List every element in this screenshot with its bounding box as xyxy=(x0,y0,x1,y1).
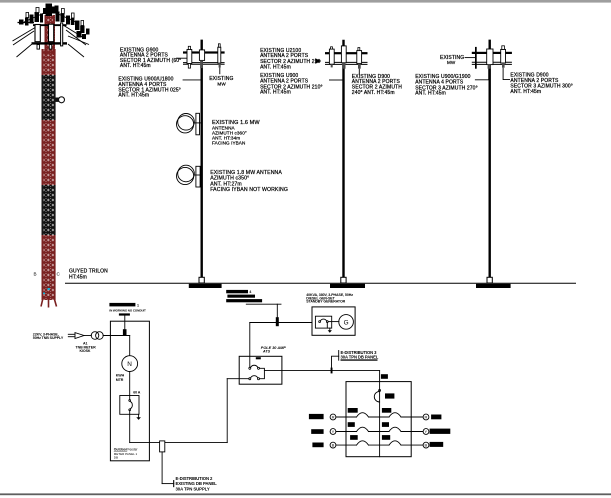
antenna panel left xyxy=(329,49,334,64)
wire horizontal out of panel xyxy=(130,442,228,444)
cluster 3 left bracket bar xyxy=(475,47,477,69)
svg-text:4: 4 xyxy=(249,290,251,294)
svg-text:FACING IYBAN NOT WORKING: FACING IYBAN NOT WORKING xyxy=(210,187,288,193)
tower black band 1 xyxy=(42,75,56,120)
cable arrow symbol xyxy=(75,333,84,339)
leader right antenna to block G xyxy=(503,68,510,80)
wire breaker to G xyxy=(328,321,339,323)
red mast head xyxy=(45,15,56,55)
ground of breaker xyxy=(138,414,140,417)
DB row 1 xyxy=(309,408,442,420)
svg-text:R: R xyxy=(425,415,428,420)
breaker Q1 symbol xyxy=(129,396,131,400)
generator G xyxy=(339,315,354,330)
gen breaker symbol xyxy=(319,321,321,323)
wire riser to ATS xyxy=(226,379,228,443)
block G xyxy=(510,72,573,95)
white panel left xyxy=(35,25,40,42)
svg-text:MW: MW xyxy=(217,82,226,87)
block B xyxy=(118,77,180,99)
generator box xyxy=(312,307,355,335)
block C xyxy=(260,48,320,71)
leader MW label xyxy=(465,57,475,59)
mast 2 pole xyxy=(342,40,344,277)
kWh meter N xyxy=(122,356,138,372)
DB divider xyxy=(379,382,381,457)
platform top bar xyxy=(33,24,67,26)
svg-text:G: G xyxy=(344,319,349,326)
svg-text:30A TPN SUPPLY: 30A TPN SUPPLY xyxy=(176,486,210,491)
tower top antenna cluster xyxy=(13,4,90,58)
dish 2 bracket xyxy=(196,166,200,187)
breaker box Q1 xyxy=(120,396,139,415)
antenna panel right xyxy=(218,47,221,63)
svg-text:KIOSK: KIOSK xyxy=(80,349,91,353)
svg-text:B: B xyxy=(34,272,37,277)
mast top black blobs xyxy=(43,4,59,17)
svg-text:FACING IYBAN: FACING IYBAN xyxy=(212,140,245,145)
wire branch to label xyxy=(162,483,174,485)
block F xyxy=(415,74,478,97)
antenna panel right xyxy=(357,51,362,64)
antenna panel right xyxy=(501,49,506,63)
gen breaker tick xyxy=(276,317,279,326)
wire generator to ATS xyxy=(250,322,312,324)
leader block D to mast2 xyxy=(329,79,344,81)
leader block A xyxy=(176,57,187,59)
svg-text:N: N xyxy=(127,361,132,368)
cluster 3 top bar xyxy=(472,52,512,54)
svg-text:30A TPN DB PANEL: 30A TPN DB PANEL xyxy=(341,355,379,360)
platform feet xyxy=(37,45,40,50)
svg-text:1: 1 xyxy=(137,303,139,307)
ATS switch S2 xyxy=(249,378,251,380)
DB row 2 xyxy=(311,422,450,434)
DB main breaker xyxy=(379,389,381,391)
svg-text:STANDBY GENERATOR: STANDBY GENERATOR xyxy=(306,300,345,304)
block E xyxy=(352,74,402,96)
mast 1 foot xyxy=(199,277,204,283)
wire breaker down xyxy=(129,414,131,442)
wire gen drop into ATS xyxy=(249,323,251,368)
mast 2 base pad xyxy=(330,284,365,288)
wire from busbar down xyxy=(124,316,126,334)
ATS link wire xyxy=(260,368,265,378)
svg-text:DB: DB xyxy=(114,455,118,459)
svg-text:60 A: 60 A xyxy=(133,391,141,395)
busbar T xyxy=(119,313,130,315)
mast 2 foot xyxy=(341,277,346,283)
block D xyxy=(260,73,323,96)
dish 2 xyxy=(178,165,195,182)
ATS box xyxy=(239,356,282,384)
svg-text:ANT. HT:45m: ANT. HT:45m xyxy=(118,93,149,99)
svg-text:ANT. HT:45m: ANT. HT:45m xyxy=(260,90,291,96)
label E-DISTRIBUTION 2 xyxy=(176,476,218,491)
svg-text:ANT. HT:45m: ANT. HT:45m xyxy=(260,65,291,71)
LV panel box xyxy=(110,321,149,461)
svg-text:R: R xyxy=(332,415,335,420)
DB panel box xyxy=(346,382,411,457)
guy wire diagonals xyxy=(13,13,87,57)
fuse link F1 xyxy=(123,329,127,336)
node tick xyxy=(173,481,175,487)
tower red band 1 xyxy=(42,49,56,75)
tower red band 3 xyxy=(42,235,56,300)
ATS switch S1 xyxy=(249,367,251,369)
leader to MW label xyxy=(219,68,221,75)
bottom gray border xyxy=(0,493,611,495)
label E-DISTRIBUTION 4 bars xyxy=(226,290,248,293)
leader from right antenna to text E xyxy=(358,69,360,75)
leader block B xyxy=(183,79,201,81)
dish 1 link xyxy=(193,122,201,124)
top gray border xyxy=(0,0,611,3)
gen breaker box xyxy=(315,316,331,328)
svg-text:HT:45m: HT:45m xyxy=(69,274,87,280)
mast 1 base pad xyxy=(189,284,222,288)
double line symbol xyxy=(68,333,74,335)
svg-text:50Hz TNB SUPPLY: 50Hz TNB SUPPLY xyxy=(33,336,64,340)
cluster 2 lower double bar xyxy=(325,61,368,63)
tower bottom legs xyxy=(41,296,57,308)
wire transformer to panel xyxy=(103,335,130,337)
label E-DISTRIBUTION 3 xyxy=(332,356,339,370)
svg-text:MTR: MTR xyxy=(116,378,124,382)
svg-text:IN WORKING NO CONDUIT: IN WORKING NO CONDUIT xyxy=(109,308,146,312)
antenna panel center xyxy=(199,50,204,61)
wire branch down xyxy=(161,452,163,484)
svg-text:240° ANT. HT:45m: 240° ANT. HT:45m xyxy=(352,90,395,96)
dish 1 xyxy=(178,114,195,131)
DB row 3 xyxy=(312,435,443,448)
cluster 1 lower double bar xyxy=(183,62,225,64)
antenna panel center xyxy=(487,49,493,65)
svg-text:MW: MW xyxy=(447,60,456,65)
gen breaker ground xyxy=(326,323,328,329)
cluster 2 top bar xyxy=(325,52,368,54)
cluster 1 top bar xyxy=(183,51,225,53)
antenna panel center xyxy=(341,46,346,63)
svg-text:ANT. HT:45m: ANT. HT:45m xyxy=(415,91,446,97)
label E-DISTRIBUTION 1 xyxy=(109,303,135,307)
wire to meter xyxy=(129,336,131,356)
tower black band 2 xyxy=(42,185,56,235)
upper antennas xyxy=(56,12,90,40)
svg-text:B: B xyxy=(425,443,428,448)
dish 1 bracket xyxy=(196,113,200,135)
platform bottom bar xyxy=(32,42,68,44)
tower red band 2 xyxy=(42,120,56,185)
wire ATS output xyxy=(264,370,379,372)
cyan tick marks xyxy=(48,288,50,290)
mast 3 foot xyxy=(487,277,492,283)
lower right diagonal tail xyxy=(68,36,89,45)
right white pole xyxy=(61,23,63,46)
left arm antennas xyxy=(19,12,43,26)
svg-text:ANT. HT:45m: ANT. HT:45m xyxy=(120,63,151,69)
leader center antenna to block F xyxy=(475,69,489,80)
leader from label to gen breaker xyxy=(246,303,281,305)
antenna panel left xyxy=(187,50,192,64)
svg-text:ATS: ATS xyxy=(262,350,271,354)
wire arrow to transformer xyxy=(84,335,91,337)
svg-text:Y: Y xyxy=(425,429,428,434)
small white antenna caps xyxy=(26,8,84,26)
wire riser to ATS horizontal xyxy=(227,378,249,380)
white panel right xyxy=(49,24,54,42)
ground line xyxy=(65,282,576,284)
svg-text:ANT. HT:45m: ANT. HT:45m xyxy=(510,89,541,95)
mast 3 pole xyxy=(489,40,491,278)
node tick on output xyxy=(331,368,333,374)
dish 2 text xyxy=(210,170,288,193)
ATS tiny label xyxy=(256,357,261,359)
wire meter to breaker xyxy=(129,372,131,396)
arrow at end of block C line3 xyxy=(315,58,321,64)
svg-text:B: B xyxy=(332,443,335,448)
left arm bar xyxy=(18,22,35,24)
mast 3 base pad xyxy=(476,284,511,288)
tower side dish knob xyxy=(56,97,65,103)
dish 2 link xyxy=(193,174,201,176)
transformer T1 xyxy=(91,332,99,340)
fuse F2 on branch xyxy=(160,441,165,452)
block A xyxy=(120,47,181,69)
svg-text:Y: Y xyxy=(332,429,335,434)
wire drop to DB xyxy=(379,371,381,382)
label bar at drop xyxy=(381,374,388,379)
cluster 3 lower double bar xyxy=(472,61,512,63)
label bar at main breaker xyxy=(385,393,394,398)
mast 1 pole xyxy=(200,40,202,278)
